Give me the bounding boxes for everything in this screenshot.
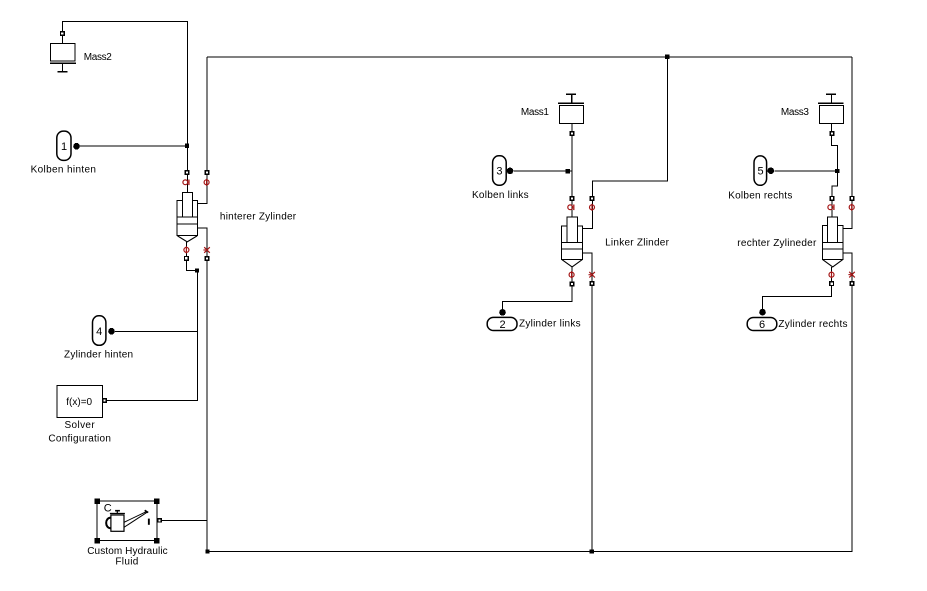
port oval Kolben rechts: [754, 156, 767, 185]
svg-text:3: 3: [496, 166, 502, 178]
mass Mass3 stem: [831, 94, 833, 103]
selection handle CHF bottom-left: [94, 538, 100, 544]
port oval Kolben links: [493, 156, 507, 185]
wire bottom bus horizontal: [207, 550, 852, 552]
svg-text:Kolben rechts: Kolben rechts: [728, 190, 792, 201]
cylinder rechter Zylineder piston line: [823, 248, 843, 250]
svg-text:Mass1: Mass1: [521, 107, 549, 118]
svg-text:Configuration: Configuration: [48, 434, 111, 445]
red port marker rechter top-right: [849, 204, 854, 211]
wire Linker Zlinder bottom-left to Zylinder links: [503, 267, 572, 310]
mass Mass1 top bar: [566, 93, 576, 95]
oil can cap CHF: [115, 510, 120, 512]
cylinder Linker Zlinder piston line upper: [562, 242, 583, 244]
cylinder hinterer Zylinder piston line: [177, 223, 197, 225]
cylinder hinterer Zylinder outer body: [177, 201, 197, 236]
port oval Zylinder rechts: [747, 318, 777, 331]
junction square bottom bus left corner: [205, 549, 209, 553]
cylinder hinterer Zylinder piston line upper: [177, 216, 197, 218]
selection handle CHF top-left: [94, 498, 100, 504]
cylinder hinterer Zylinder funnel: [178, 236, 198, 242]
red port marker hinterer bottom-right X: [203, 247, 209, 253]
port square hinterer Zylinder top-right: [205, 171, 209, 175]
port square Mass1 line end: [570, 132, 574, 136]
port square Solver Configuration line end: [103, 399, 107, 403]
mass Mass3 body: [820, 105, 844, 123]
svg-text:Solver: Solver: [65, 420, 96, 431]
mass Mass3 top bar: [826, 93, 836, 95]
wire rechter Zylineder bottom-left to Zylinder rechts: [763, 267, 832, 309]
cylinder hinterer Zylinder rod: [182, 193, 192, 217]
wire Kolben rechts to junction: [774, 170, 838, 172]
svg-text:Mass2: Mass2: [84, 52, 112, 63]
red port marker rechter bottom-left: [829, 271, 834, 278]
cylinder rechter Zylineder outer body: [823, 226, 843, 260]
junction square hinterer bottom corner: [195, 268, 199, 272]
red port marker Linker top-right: [590, 204, 595, 211]
mass Mass1 body: [560, 105, 584, 123]
oil can body CHF: [111, 515, 124, 531]
svg-text:1: 1: [61, 141, 67, 153]
red port marker Linker bottom-left: [569, 271, 574, 278]
junction square Kolben hinten line end: [185, 144, 189, 148]
svg-text:f(x)=0: f(x)=0: [66, 397, 92, 408]
svg-text:Zylinder links: Zylinder links: [519, 319, 581, 330]
oil can handle CHF: [106, 518, 111, 529]
connector dot Zylinder hinten: [108, 328, 115, 335]
wire Linker Zlinder bottom-right down to bottom bus: [582, 253, 592, 551]
cylinder rechter Zylineder piston line upper: [823, 241, 843, 243]
cylinder rechter Zylineder rod: [828, 217, 838, 242]
wire loop top horizontal: [207, 56, 852, 58]
port square rechter Zylineder top-right: [850, 197, 854, 201]
port square Mass3 line end: [830, 132, 834, 136]
connector dot Kolben hinten: [73, 143, 80, 150]
svg-text:Kolben hinten: Kolben hinten: [31, 165, 97, 176]
port square hinterer Zylinder top-left: [185, 171, 189, 175]
svg-text:4: 4: [96, 326, 102, 338]
port square Custom Hydraulic Fluid line end: [158, 519, 161, 522]
junction square loop top: [665, 55, 669, 59]
red port marker hinterer top-right: [204, 179, 209, 186]
cylinder Linker Zlinder rod: [567, 217, 578, 242]
svg-text:Kolben links: Kolben links: [472, 190, 529, 201]
mass Mass3 top line: [818, 102, 844, 104]
port square hinterer Zylinder bottom-right: [205, 257, 209, 261]
wire Mass3 down to rechter Zylineder rod: [832, 123, 838, 217]
wire hinterer Zylinder top-right up to loop: [197, 57, 207, 203]
port square Linker Zlinder bottom-left: [570, 282, 574, 286]
junction square Kolben rechts: [835, 169, 839, 173]
svg-text:Zylinder rechts: Zylinder rechts: [778, 319, 847, 330]
port square Linker Zlinder bottom-right: [590, 282, 594, 286]
connector dot Kolben links: [507, 168, 514, 175]
wire hinterer Zylinder bottom-left down: [106, 242, 197, 401]
red port marker Linker top-left: [568, 205, 574, 211]
mass Mass2 stem: [62, 63, 64, 71]
junction square bottom bus Linker branch: [590, 549, 594, 553]
wire Zylinder hinten port to vertical: [115, 330, 197, 332]
oil can spout tip CHF: [145, 510, 149, 512]
port oval Kolben hinten: [57, 131, 71, 160]
connector dot Kolben rechts: [768, 167, 775, 174]
svg-text:6: 6: [759, 319, 765, 331]
svg-text:2: 2: [500, 319, 506, 331]
mass Mass2 body: [50, 43, 75, 61]
oil can spout CHF: [124, 512, 147, 528]
mass Mass2 base line: [50, 62, 76, 64]
svg-text:Linker Zlinder: Linker Zlinder: [605, 237, 670, 248]
port square Mass2 line end: [61, 32, 65, 36]
svg-text:Custom Hydraulic: Custom Hydraulic: [87, 546, 168, 557]
port square hinterer Zylinder bottom-left: [185, 257, 189, 261]
custom hydraulic fluid block body: [97, 501, 157, 541]
wire Kolben links to junction: [514, 170, 573, 172]
red port marker Linker bottom-right X: [589, 272, 595, 278]
connector dot Zylinder rechts: [759, 309, 766, 316]
port oval Zylinder links: [487, 317, 517, 330]
port square Linker Zlinder top-left: [570, 197, 574, 201]
wire Custom Hydraulic Fluid to vertical: [162, 519, 208, 521]
selection handle CHF top-right: [154, 498, 160, 504]
cylinder Linker Zlinder funnel: [562, 260, 582, 267]
svg-text:Fluid: Fluid: [115, 557, 138, 568]
connector dot Zylinder links: [499, 309, 506, 316]
port square rechter Zylineder bottom-right: [850, 282, 854, 286]
wire Mass2 top horizontal: [63, 22, 188, 193]
mass Mass1 stem: [571, 94, 573, 103]
mass Mass2 foot bar: [58, 71, 68, 73]
port square Linker Zlinder top-right: [590, 197, 594, 201]
svg-text:C: C: [104, 503, 112, 515]
port square rechter Zylineder top-left: [830, 197, 834, 201]
mass Mass1 top line: [558, 102, 584, 104]
wire hinterer Zylinder bottom-right down to bottom bus: [197, 228, 207, 552]
wire loop right down to rechter Zylineder top-right: [843, 57, 852, 229]
red port marker rechter bottom-right X: [848, 272, 854, 278]
wire Kolben hinten to junction: [79, 145, 188, 147]
port square rechter Zylineder bottom-left: [830, 282, 834, 286]
red port marker hinterer top-left: [183, 180, 189, 186]
port oval Zylinder hinten: [93, 316, 106, 346]
solver configuration block body: [57, 385, 102, 417]
selection handle CHF bottom-right: [154, 538, 160, 544]
port label I CHF: [148, 519, 150, 525]
wire Mass1 down to Linker Zlinder rod: [571, 123, 573, 217]
red port marker rechter top-left: [828, 204, 834, 210]
wire rechter Zylineder bottom-right down to bottom bus: [843, 253, 852, 551]
svg-text:5: 5: [758, 166, 764, 178]
junction square Kolben links line end: [566, 169, 570, 173]
cylinder Linker Zlinder piston line: [562, 248, 583, 250]
svg-text:rechter Zylineder: rechter Zylineder: [737, 238, 817, 249]
cylinder rechter Zylineder funnel: [823, 260, 843, 267]
cylinder Linker Zlinder outer body: [562, 226, 583, 260]
red port marker hinterer bottom-left: [184, 246, 189, 253]
svg-text:Zylinder hinten: Zylinder hinten: [64, 349, 133, 360]
wire branch from top loop down to Linker Zlinder top-right: [582, 57, 667, 229]
svg-text:hinterer Zylinder: hinterer Zylinder: [220, 212, 297, 223]
oil can lid CHF: [110, 513, 125, 515]
svg-text:Mass3: Mass3: [781, 107, 809, 118]
